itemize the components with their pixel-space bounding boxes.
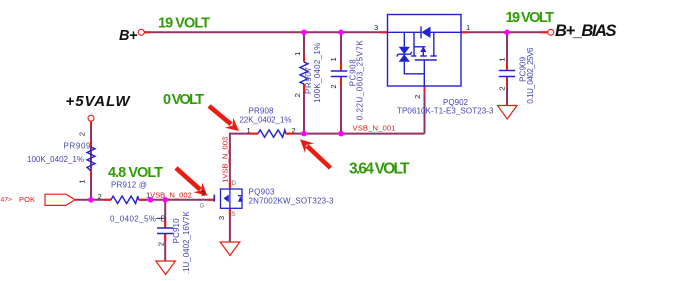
svg-text:2: 2 (157, 242, 166, 246)
svg-text:2: 2 (413, 95, 422, 99)
svg-text:B+: B+ (119, 28, 138, 44)
svg-text:22K_0402_1%: 22K_0402_1% (240, 116, 292, 125)
svg-text:2: 2 (201, 189, 205, 198)
svg-text:3.64 VOLT: 3.64 VOLT (349, 160, 410, 177)
svg-text:2: 2 (293, 93, 302, 97)
svg-text:0.1U_0402_25V6: 0.1U_0402_25V6 (526, 47, 535, 104)
svg-text:+5VALW: +5VALW (66, 93, 132, 110)
svg-text:2: 2 (329, 84, 338, 88)
svg-text:VSB_N_001: VSB_N_001 (353, 123, 396, 132)
svg-text:4.8 VOLT: 4.8 VOLT (108, 165, 163, 181)
svg-text:2: 2 (498, 86, 507, 90)
svg-text:VSB_N_002: VSB_N_002 (150, 190, 192, 199)
svg-text:2: 2 (292, 126, 296, 135)
svg-text:19 VOLT: 19 VOLT (506, 10, 555, 26)
svg-text:100K_0402_1%: 100K_0402_1% (27, 155, 84, 164)
svg-text:0_0402_5%: 0_0402_5% (110, 215, 156, 224)
svg-text:100K_0402_1%: 100K_0402_1% (313, 43, 322, 103)
svg-text:47>: 47> (1, 197, 13, 204)
svg-text:1: 1 (247, 126, 251, 135)
svg-text:1: 1 (466, 23, 470, 32)
svg-text:1: 1 (146, 190, 150, 199)
svg-text:B+_BIAS: B+_BIAS (555, 22, 617, 40)
svg-text:G: G (200, 203, 205, 210)
svg-text:1: 1 (78, 179, 87, 183)
svg-text:.1U_0402_16V7K: .1U_0402_16V7K (182, 210, 191, 274)
svg-text:PR907: PR907 (304, 66, 313, 94)
svg-text:2: 2 (98, 192, 102, 201)
svg-text:D: D (232, 180, 237, 187)
svg-text:1VSB_N_003: 1VSB_N_003 (220, 137, 229, 183)
svg-text:PQ903: PQ903 (249, 187, 276, 196)
svg-text:POK: POK (19, 195, 35, 204)
svg-text:0.22U_0603_25V7K: 0.22U_0603_25V7K (356, 40, 365, 121)
svg-text:1: 1 (498, 57, 507, 61)
svg-text:TP0610K-T1-E3_SOT23-3: TP0610K-T1-E3_SOT23-3 (397, 107, 494, 116)
svg-text:3: 3 (217, 216, 226, 220)
svg-text:19 VOLT: 19 VOLT (158, 16, 210, 32)
svg-text:0 VOLT: 0 VOLT (163, 92, 204, 108)
svg-text:PR912 @: PR912 @ (111, 181, 147, 190)
svg-text:PR908: PR908 (249, 106, 275, 115)
svg-text:PC910: PC910 (172, 218, 181, 244)
svg-text:~D: ~D (156, 215, 167, 224)
svg-text:PR909: PR909 (64, 142, 92, 151)
svg-text:2: 2 (78, 132, 87, 136)
svg-text:S: S (232, 211, 236, 218)
svg-text:3: 3 (374, 23, 378, 32)
svg-text:2N7002KW_SOT323-3: 2N7002KW_SOT323-3 (249, 196, 335, 205)
svg-text:1: 1 (329, 57, 338, 61)
svg-text:1: 1 (293, 52, 302, 56)
